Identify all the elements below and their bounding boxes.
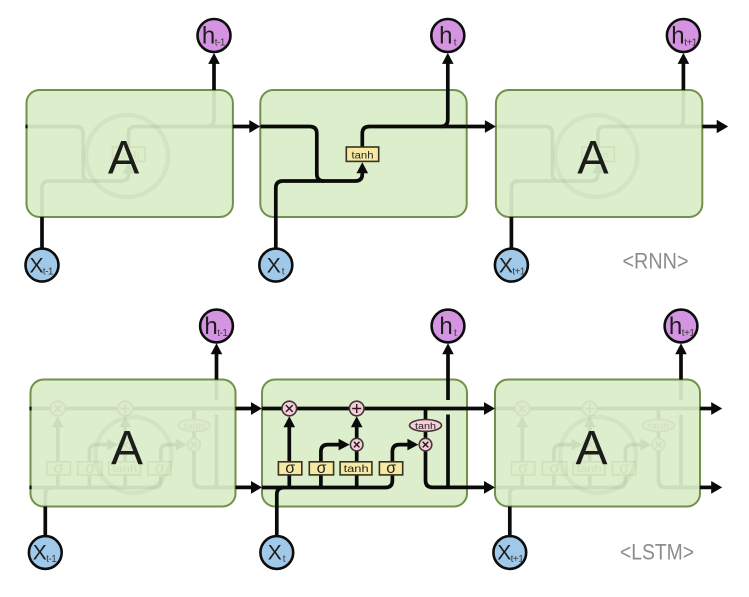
svg-text:t+1: t+1: [684, 38, 698, 49]
svg-text:t-1: t-1: [46, 554, 57, 565]
svg-text:t: t: [283, 554, 286, 565]
svg-text:h: h: [202, 23, 215, 50]
svg-text:X: X: [267, 254, 281, 277]
svg-text:h: h: [439, 313, 452, 340]
svg-text:t+1: t+1: [511, 554, 525, 565]
svg-text:t+1: t+1: [682, 328, 696, 339]
svg-text:t: t: [454, 328, 457, 339]
svg-text:h: h: [204, 313, 217, 340]
svg-text:A: A: [577, 130, 609, 183]
svg-text:X: X: [499, 254, 513, 277]
svg-text:<LSTM>: <LSTM>: [620, 539, 694, 564]
svg-text:h: h: [439, 23, 452, 50]
svg-text:X: X: [497, 542, 511, 565]
svg-text:t-1: t-1: [43, 267, 54, 278]
svg-text:<RNN>: <RNN>: [623, 249, 689, 274]
svg-text:h: h: [671, 23, 684, 50]
svg-text:t: t: [454, 38, 457, 49]
svg-text:X: X: [33, 542, 47, 565]
svg-text:A: A: [108, 130, 140, 183]
svg-text:t: t: [282, 267, 285, 278]
svg-text:X: X: [268, 542, 282, 565]
svg-text:X: X: [29, 254, 43, 277]
svg-text:t-1: t-1: [217, 328, 228, 339]
svg-text:A: A: [111, 422, 143, 475]
svg-text:t+1: t+1: [512, 267, 526, 278]
svg-text:h: h: [669, 313, 682, 340]
svg-text:A: A: [575, 422, 607, 475]
svg-text:t-1: t-1: [215, 38, 226, 49]
